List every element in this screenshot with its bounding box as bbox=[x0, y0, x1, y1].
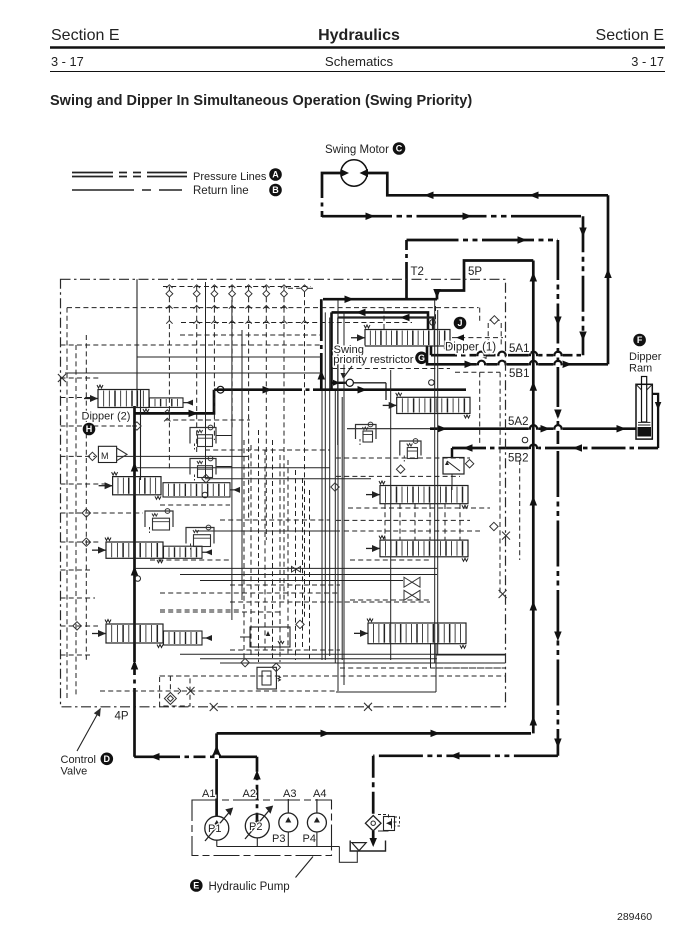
return loop inner y240 bbox=[407, 239, 558, 242]
parallel thin columns between banks bbox=[321, 390, 323, 660]
pump P2 bbox=[245, 814, 269, 838]
spool valve Dipper (1) bbox=[351, 337, 365, 339]
flow arrow right y240 bbox=[518, 236, 528, 244]
relief valve RL1 bbox=[190, 428, 216, 444]
return to tank line y755.8 right bbox=[373, 754, 558, 757]
relief valve RL3 bbox=[145, 511, 173, 527]
svg-text:G: G bbox=[418, 353, 425, 363]
flow arrows left on y195 bbox=[424, 192, 434, 200]
svg-text:Valve: Valve bbox=[61, 766, 88, 778]
svg-text:T2: T2 bbox=[411, 266, 424, 278]
return column x556.5 dash-dot bbox=[557, 240, 560, 444]
5B2 check valve V1 bbox=[451, 448, 454, 458]
pilot dashed line above Dipper(1) bbox=[452, 337, 503, 339]
mid dashed horizontals bbox=[165, 419, 250, 421]
svg-text:F: F bbox=[637, 335, 643, 345]
control valve boundary box 4P bbox=[61, 279, 506, 707]
dipper ram cylinder bbox=[642, 377, 647, 423]
pump P3 bbox=[279, 813, 298, 832]
svg-text:4P: 4P bbox=[115, 710, 129, 722]
return filter F1 bbox=[365, 816, 381, 831]
dipper2 tap vertical x214 bbox=[135, 390, 214, 414]
badge H bbox=[83, 423, 96, 436]
spool valve Dipper (2) bbox=[84, 398, 98, 400]
check valve row symbol 2 bbox=[196, 287, 198, 291]
svg-text:Return line: Return line bbox=[193, 185, 249, 197]
spool valve R5 bbox=[354, 632, 368, 634]
return line swing motor loop y216 bbox=[322, 215, 583, 218]
svg-text:priority restrictor: priority restrictor bbox=[333, 354, 413, 366]
mid dashed horizontals extra bbox=[180, 334, 320, 336]
right area pilot verticals bbox=[383, 308, 385, 330]
pilot relief valve bottom bbox=[257, 667, 276, 689]
check valve row symbol 1 bbox=[168, 287, 170, 291]
pump leader line bbox=[296, 857, 314, 878]
flow arrow up x608 bbox=[604, 269, 612, 279]
left bank dashed horizontals bbox=[61, 377, 101, 379]
port circle symbols bbox=[135, 576, 141, 582]
svg-text:M: M bbox=[101, 451, 109, 461]
svg-text:3 - 17: 3 - 17 bbox=[51, 54, 84, 69]
tank strainer funnel bbox=[352, 843, 366, 851]
flow arrow down 5P drop bbox=[433, 289, 441, 299]
diamond symbols bbox=[88, 452, 96, 460]
legend pressure line sample (double line) bbox=[72, 172, 187, 174]
check valve row symbol 6 bbox=[265, 287, 267, 291]
right bank frame bottom bbox=[336, 691, 436, 693]
svg-text:A3: A3 bbox=[283, 788, 296, 800]
5P feed from pump riser bbox=[437, 261, 533, 300]
pressure line swing motor right leg bbox=[367, 173, 609, 195]
svg-text:Pressure Lines: Pressure Lines bbox=[193, 171, 267, 183]
svg-text:Swing Motor: Swing Motor bbox=[325, 144, 389, 156]
flow arrow up x321 bbox=[318, 370, 326, 380]
cross marks bbox=[58, 374, 66, 382]
right bank frame verticals bbox=[337, 300, 339, 691]
svg-text:Ram: Ram bbox=[629, 363, 652, 375]
restrictor leader arrow bbox=[344, 366, 352, 377]
badge C bbox=[393, 142, 406, 155]
right bank dashed horizontals bbox=[336, 457, 470, 459]
svg-text:Section E: Section E bbox=[51, 27, 119, 44]
pump pressure riser x531 bbox=[532, 261, 535, 734]
right bank short port verticals bbox=[384, 504, 386, 540]
svg-text:B: B bbox=[272, 185, 279, 195]
port line 5A2 bbox=[347, 428, 430, 430]
badge J bbox=[454, 317, 467, 330]
svg-text:P3: P3 bbox=[272, 833, 285, 845]
gate valve bowtie pair bbox=[404, 577, 412, 587]
pilot bus dashed y307.6 bbox=[67, 307, 479, 309]
pilot pump symbol M bbox=[98, 446, 116, 462]
check valve row symbol 3 bbox=[213, 287, 215, 291]
header thin rule bbox=[50, 71, 665, 73]
legend badge A bbox=[269, 168, 282, 181]
svg-text:E: E bbox=[193, 881, 199, 891]
pilot mesh vertical lines center comb bbox=[243, 440, 245, 660]
svg-text:A2: A2 bbox=[243, 788, 256, 800]
bus line y373 bbox=[65, 372, 321, 374]
port circle on swing feed bbox=[217, 386, 224, 393]
left drop x331 to restrictor bbox=[330, 312, 333, 389]
J area dashed box bbox=[435, 306, 437, 322]
flow arrows on swing feed bbox=[263, 386, 273, 394]
aux valve box right of L4 bbox=[250, 627, 290, 647]
svg-text:H: H bbox=[86, 424, 93, 434]
svg-text:Control: Control bbox=[61, 754, 96, 766]
svg-text:289460: 289460 bbox=[617, 911, 652, 923]
relief valve RR1 bbox=[356, 425, 377, 440]
filter diamond in dashed box bottom bbox=[160, 676, 190, 706]
A3 riser bbox=[287, 799, 289, 813]
check valve row symbol 5 bbox=[248, 287, 250, 291]
badge G bbox=[415, 352, 428, 365]
bus line y357 bbox=[137, 356, 321, 358]
relief valve RL2 bbox=[190, 459, 216, 475]
svg-text:J: J bbox=[457, 318, 462, 328]
dipper ram piston bbox=[638, 427, 652, 437]
crossover line y317 to Dipper(1) bbox=[338, 318, 433, 330]
relief valve RL4 bbox=[186, 528, 214, 544]
spool valve R3 bbox=[366, 494, 380, 496]
crossover line y312 to Dipper(1) bbox=[332, 312, 429, 329]
bus lines y568-580 bbox=[135, 567, 438, 569]
hydraulic pump box bbox=[192, 800, 332, 856]
inner solid verticals left-center bbox=[231, 300, 233, 620]
svg-text:Schematics: Schematics bbox=[325, 54, 394, 69]
bus lines bottom y654-663 bbox=[180, 653, 505, 655]
port line 5B1 bbox=[427, 346, 608, 365]
badge E bbox=[190, 879, 203, 892]
svg-text:5A2: 5A2 bbox=[508, 416, 528, 428]
filter outlet arrow into tank bbox=[372, 831, 375, 838]
dipper ram rod side line bbox=[652, 394, 658, 448]
badge F bbox=[633, 334, 646, 347]
restrictor orifice bbox=[346, 379, 353, 386]
svg-text:5B2: 5B2 bbox=[508, 453, 528, 465]
main inlet riser x134.5 thick bbox=[133, 700, 136, 757]
svg-text:A1: A1 bbox=[202, 788, 215, 800]
flow arrow right on y216 bbox=[366, 212, 376, 220]
P2 return line y756.8 bbox=[134, 755, 168, 758]
swing priority restrictor line bbox=[332, 382, 346, 384]
legend return line sample bbox=[72, 189, 182, 191]
spool valve L3 bbox=[92, 549, 106, 551]
P1 riser bbox=[215, 733, 218, 816]
svg-text:Dipper: Dipper bbox=[629, 351, 662, 363]
spool valve R4 bbox=[366, 547, 380, 549]
svg-text:Hydraulics: Hydraulics bbox=[318, 27, 400, 44]
svg-text:C: C bbox=[396, 144, 403, 154]
pressure line right column x608 bbox=[607, 195, 610, 364]
bus lines mid left bbox=[117, 455, 248, 457]
svg-text:Swing and Dipper In Simultaneo: Swing and Dipper In Simultaneous Operati… bbox=[50, 93, 472, 109]
svg-text:Section E: Section E bbox=[596, 27, 664, 44]
return drop line x583 bbox=[582, 216, 585, 355]
junction line y299 T2-5P bbox=[323, 298, 437, 301]
check valve row symbol 7 bbox=[283, 287, 285, 291]
svg-text:Dipper (1): Dipper (1) bbox=[445, 342, 496, 354]
flow arrows down x556.5 bbox=[554, 317, 562, 327]
svg-text:A: A bbox=[272, 170, 279, 180]
filter bypass relief bbox=[378, 814, 389, 816]
pilot dashed box below Dipper(1) bbox=[455, 371, 500, 373]
legend badge B bbox=[269, 184, 282, 197]
svg-text:5B1: 5B1 bbox=[509, 368, 529, 380]
port line 5B2 bbox=[452, 447, 658, 450]
spool valve Swing bbox=[383, 404, 397, 406]
check valve row symbol 4 bbox=[231, 287, 233, 291]
swing priority column x321 bbox=[320, 299, 323, 330]
flow arrows down x583 bbox=[579, 228, 587, 238]
svg-text:5A1: 5A1 bbox=[509, 343, 529, 355]
svg-text:P1: P1 bbox=[208, 823, 221, 835]
svg-text:P4: P4 bbox=[303, 833, 316, 845]
svg-text:P2: P2 bbox=[249, 821, 262, 833]
swing motor M1 bbox=[341, 160, 367, 186]
A2 riser dash-dot bbox=[256, 757, 259, 824]
badge D bbox=[101, 753, 114, 766]
port line 5A1 bbox=[430, 346, 433, 356]
svg-text:A4: A4 bbox=[313, 788, 326, 800]
svg-text:Dipper (2): Dipper (2) bbox=[82, 411, 131, 423]
left bank pilot verticals bbox=[66, 308, 68, 698]
pilot bus dashed y322.5 bbox=[181, 322, 412, 324]
pump P4 bbox=[307, 813, 326, 832]
left tall line x137 thin bbox=[136, 279, 138, 408]
small bowtie y569 bbox=[292, 566, 297, 572]
flow arrows up x531 bbox=[530, 272, 538, 282]
swing feed line y389.7 bbox=[214, 388, 296, 391]
pilot mesh vertical lines upper bbox=[168, 308, 170, 470]
flow arrows up riser x134.5 bbox=[131, 462, 139, 472]
svg-text:D: D bbox=[104, 754, 111, 764]
single check symbol right bbox=[288, 287, 301, 289]
pump suction stems bbox=[216, 840, 218, 846]
chevrons below Dipper (2) ext bbox=[164, 410, 170, 413]
A4 riser bbox=[316, 799, 318, 813]
pump delivery line y733.4 bbox=[217, 732, 531, 735]
pressure line swing motor left leg bbox=[322, 173, 342, 186]
filter riser x373 bbox=[372, 756, 375, 816]
pump suction manifold bbox=[217, 846, 340, 848]
svg-text:Hydraulic Pump: Hydraulic Pump bbox=[209, 881, 290, 893]
pilot header dashed line bbox=[163, 286, 311, 288]
svg-text:3 - 17: 3 - 17 bbox=[631, 54, 664, 69]
relief valve RR2 bbox=[400, 441, 421, 456]
T2 drop line bbox=[405, 240, 408, 262]
pump P1 bbox=[205, 816, 229, 840]
spool valve L2 bbox=[99, 485, 113, 487]
control valve leader arrow bbox=[77, 709, 101, 752]
tank T1 bbox=[350, 841, 385, 852]
suction trap to tank bbox=[339, 847, 357, 863]
svg-text:5P: 5P bbox=[468, 266, 482, 278]
spool valve L4 bbox=[92, 633, 106, 635]
flow arrow right y299 bbox=[345, 295, 355, 303]
header thick rule bbox=[50, 46, 665, 48]
diamond near 5B2 valve bbox=[465, 460, 473, 468]
